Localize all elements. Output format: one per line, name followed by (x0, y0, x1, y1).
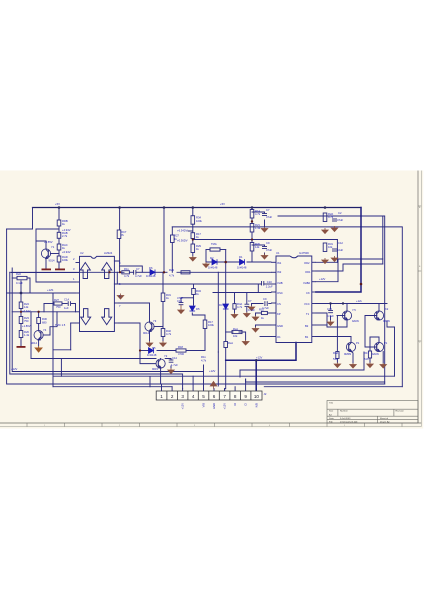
ground arrow C15 mid (178, 305, 184, 314)
svg-text:+0.94V: +0.94V (62, 250, 71, 254)
svg-text:+5V: +5V (220, 202, 225, 206)
U1 pins right (312, 261, 316, 263)
transistor Y3 (145, 322, 154, 331)
svg-text:51K: 51K (333, 357, 338, 361)
ground arrow cluster 1 (334, 363, 340, 368)
ground arrow Y3 e (146, 341, 152, 347)
wire +5V top rail (33, 207, 362, 209)
ground arrow Ra row (242, 340, 249, 345)
svg-text:Y4: Y4 (43, 328, 47, 332)
svg-text:1N4148: 1N4148 (146, 274, 156, 278)
svg-text:C2: C2 (338, 211, 342, 215)
wire right long feedback y226 (172, 227, 402, 387)
transistor Q3 right low a (346, 342, 355, 351)
svg-text:Revision: Revision (396, 411, 405, 413)
wire bottom long rows (53, 375, 395, 377)
resistor R32 (161, 329, 165, 337)
wire rail left drop (7, 208, 33, 230)
resistor R21 mid (250, 224, 254, 233)
wire R chain from rail (58, 208, 60, 221)
power arrow +12V above box6 (210, 382, 216, 389)
svg-text:GND: GND (277, 324, 283, 328)
svg-text:9M0N: 9M0N (344, 352, 351, 356)
ground arrow U2 side (117, 294, 123, 300)
svg-text:9A0N: 9A0N (383, 319, 390, 323)
node D5 row junction (139, 349, 141, 351)
wire box5 riser (203, 365, 205, 372)
svg-text:0.1uF: 0.1uF (16, 281, 23, 285)
svg-text:1N4148: 1N4148 (208, 266, 218, 270)
node diode row junction (224, 261, 227, 264)
svg-text:47uF: 47uF (337, 218, 343, 222)
ground arrow C9 pin5 (248, 306, 254, 311)
wire Y2 emitter (160, 368, 162, 384)
svg-text:Y2: Y2 (164, 354, 168, 358)
wire R31 branch (162, 272, 164, 293)
capacitor C7b under U1 (245, 303, 250, 305)
wire right cluster mesh (327, 326, 347, 328)
node thick +5V drop junction (360, 283, 363, 286)
svg-text:2.7k: 2.7k (62, 234, 68, 238)
resistor R26 (19, 331, 23, 338)
svg-text:9A0N: 9A0N (352, 319, 359, 323)
svg-text:R27: R27 (54, 298, 59, 302)
svg-text:1N4148: 1N4148 (147, 353, 157, 357)
svg-text:47uF: 47uF (266, 248, 272, 252)
wire Y4 base (43, 334, 50, 336)
svg-text:2.2uF: 2.2uF (266, 285, 273, 289)
svg-text:+12V: +12V (223, 403, 227, 410)
svg-text:C9: C9 (266, 241, 270, 245)
frame zone numbers (44, 206, 421, 427)
svg-text:+5V: +5V (55, 202, 60, 206)
wire mid comp risers under U1 (234, 293, 236, 304)
svg-text:Date:: Date: (329, 417, 335, 420)
resistor R17 1k col (191, 233, 195, 239)
transistor Q2 right top b (374, 311, 383, 320)
node VCC row junction A (329, 302, 331, 304)
diode D6 1N4148 (150, 270, 155, 276)
diode D4 vertical (223, 304, 229, 309)
sheet frame bottom border (0, 422, 421, 424)
resistor R29b 4.7k row (181, 271, 190, 274)
op-amp U2 arrow D down-right (102, 309, 112, 325)
svg-text:51K: 51K (364, 357, 369, 361)
svg-text:C12: C12 (338, 241, 343, 245)
wire left stack mid (20, 309, 22, 317)
svg-text:C7: C7 (248, 299, 252, 303)
wire +12V double rail b (12, 268, 203, 389)
svg-text:CS: CS (277, 302, 281, 306)
resistor R4A 51k (336, 352, 339, 359)
node op-amp row junction C (163, 271, 165, 273)
svg-text:+12V: +12V (256, 356, 263, 360)
svg-text:D5: D5 (152, 346, 156, 350)
svg-text:C1A: C1A (64, 298, 69, 302)
ground arrow cluster 2 (350, 363, 356, 368)
node R24 top junction (20, 292, 23, 295)
svg-text:Y.5: Y.5 (352, 308, 356, 312)
wire collector Y1 (45, 241, 47, 249)
U1 pins left (271, 261, 276, 263)
ground bar under chain (55, 269, 65, 271)
svg-text:OD1: OD1 (305, 270, 311, 274)
wire R27 column x172.3 (171, 227, 173, 235)
op-amp U2 arrow B up-right (102, 263, 112, 279)
svg-text:8: 8 (234, 394, 237, 399)
resistor R30 680 (37, 318, 41, 324)
wire feedback rect above row (120, 266, 143, 272)
svg-text:D5: D5 (196, 307, 200, 311)
op-amp U2 arrow C down-left (81, 309, 91, 325)
wire row drop to pin7 (114, 272, 117, 284)
svg-text:+12v: +12v (356, 299, 363, 303)
svg-text:1.4k: 1.4k (255, 226, 261, 230)
wire Y3 base (154, 326, 163, 328)
svg-text:0.1uF: 0.1uF (248, 308, 255, 312)
component value and designator labels (11, 202, 390, 396)
svg-text:+6.34V: +6.34V (22, 309, 31, 313)
svg-text:100k: 100k (208, 323, 214, 327)
resistor R34b 1k mid (192, 289, 196, 295)
svg-text:47uF: 47uF (266, 215, 272, 219)
node +5V rail junction A (58, 206, 61, 209)
wire VCC row right (316, 303, 387, 305)
node R20 chain junction (251, 238, 253, 240)
svg-text:C10: C10 (267, 280, 272, 284)
wire diode row y261 (206, 261, 239, 263)
svg-text:Y3: Y3 (153, 319, 157, 323)
svg-text:9014: 9014 (143, 331, 149, 335)
ground arrow pin7 (252, 327, 258, 332)
svg-text:+1.86V: +1.86V (22, 324, 31, 328)
svg-text:4700: 4700 (178, 352, 184, 356)
resistor Ra1b on riser (224, 342, 228, 348)
wire U2 pin3 to Y3 (119, 303, 150, 322)
wire Y3 emitter (149, 331, 151, 341)
svg-text:TMA: TMA (211, 242, 217, 246)
svg-text:R11: R11 (201, 355, 206, 359)
diode D5 horizontal (149, 348, 154, 354)
ground arrow R4a (231, 313, 237, 318)
title block (327, 401, 418, 424)
capacitor C small x17-27 comp (17, 276, 27, 279)
resistor TMA horizontal (210, 248, 220, 251)
U2 pins left (76, 262, 80, 264)
svg-text:+12V: +12V (209, 369, 216, 373)
wire rail drop x192.8 R34 (192, 208, 194, 216)
wire TMA legs (206, 249, 210, 251)
wire left tall loop (7, 229, 385, 384)
resistor RC7 x119 (117, 230, 121, 239)
svg-text:R17: R17 (364, 351, 369, 355)
wire rail drop x119 R (119, 208, 121, 231)
svg-text:+12V: +12V (181, 403, 185, 410)
node R24 bus junction (20, 311, 22, 313)
capacitor C9 (262, 246, 267, 248)
svg-text:C7: C7 (266, 208, 270, 212)
wire R34 bottom (188, 230, 192, 232)
svg-text:Sheet of: Sheet of (380, 417, 389, 420)
wire thick drop to box10 (255, 360, 257, 390)
svg-text:P1: P1 (356, 341, 360, 345)
svg-text:+6.55V: +6.55V (44, 240, 53, 244)
sheet background (0, 171, 423, 429)
svg-text:OSC: OSC (277, 291, 283, 295)
ground arrow R32 (160, 341, 166, 347)
svg-text:OD2: OD2 (304, 261, 310, 265)
ground arrow right pair1 (322, 228, 328, 234)
svg-text:Ra1: Ra1 (228, 341, 233, 345)
ground arrow cluster 3 (367, 363, 373, 368)
wire U2 pin8 stub (114, 260, 119, 262)
sheet frame right border (417, 171, 419, 424)
wire small comp legs (12, 277, 17, 279)
capacitor C1A on bus (67, 301, 69, 306)
resistor R23 (19, 317, 23, 324)
wire row drop long x218 (217, 272, 219, 352)
svg-text:14k: 14k (255, 245, 260, 249)
resistor R17 100k (203, 320, 207, 329)
svg-text:10uF: 10uF (337, 248, 343, 252)
wire Ra1 row (226, 331, 233, 333)
wire R11b vertical (217, 352, 219, 386)
transistor Y1 (41, 249, 50, 258)
wire left stack top (20, 281, 22, 302)
wire mid v x181 (181, 297, 194, 299)
capacitor C top chain right 1 (262, 213, 267, 215)
resistor R2A right pair 1 (323, 213, 327, 222)
svg-text:GND: GND (212, 403, 216, 409)
resistor R18 4700 (176, 349, 186, 352)
svg-text:0.1uF: 0.1uF (327, 314, 334, 318)
ground arrow C14 (168, 368, 174, 374)
resistor R24 (19, 302, 23, 309)
title block field labels (329, 401, 405, 423)
wire D5h R18 row (140, 350, 148, 352)
wire y370 row (240, 369, 364, 371)
svg-text:1.7uF: 1.7uF (171, 363, 178, 367)
svg-text:4.7uF: 4.7uF (262, 306, 269, 310)
svg-text:7: 7 (223, 394, 226, 399)
svg-text:47uF: 47uF (177, 296, 183, 300)
capacitor C right pair 1 (332, 218, 337, 220)
svg-text:Number: Number (340, 410, 348, 413)
op-amp U2 DIP body (80, 256, 115, 331)
svg-text:6: 6 (213, 394, 216, 399)
svg-text:U1: U1 (276, 251, 280, 255)
capacitor C4 under U1 pin (264, 301, 266, 306)
wire R17 v (204, 315, 206, 320)
svg-text:VIB: VIB (202, 403, 206, 408)
resistor R4a 4.7k vert (233, 304, 236, 310)
svg-text:4: 4 (192, 394, 195, 399)
resistor RAB chain 2 (57, 232, 61, 238)
op-amp U2 arrow A up-left (80, 263, 90, 279)
diode D1 1N4148 (240, 259, 245, 265)
svg-text:R22: R22 (16, 272, 21, 276)
svg-text:VHB2: VHB2 (303, 281, 311, 285)
svg-text:R11: R11 (124, 267, 129, 271)
svg-text:1.4k: 1.4k (24, 333, 30, 337)
ground bar under Y1 (42, 269, 52, 271)
svg-text:T1: T1 (306, 312, 310, 316)
ground arrow C15b right (327, 320, 333, 326)
svg-text:4.7k: 4.7k (237, 305, 243, 309)
svg-text:1uF: 1uF (64, 306, 69, 310)
svg-text:+6.34DV: +6.34DV (177, 229, 188, 233)
svg-text:IN2: IN2 (277, 270, 282, 274)
wire long y284 row (117, 283, 261, 285)
wire long y239.5 row (193, 239, 338, 241)
wire cap taps top right chain (252, 212, 265, 213)
svg-text:P1: P1 (384, 341, 388, 345)
transistor Y4 left low (34, 330, 43, 339)
svg-text:C9: C9 (263, 297, 267, 301)
svg-text:D1: D1 (239, 255, 243, 259)
wire base Y1 (51, 253, 60, 255)
svg-text:2: 2 (171, 394, 174, 399)
ground arrow Y4 (35, 346, 42, 352)
svg-text:R18: R18 (178, 345, 183, 349)
svg-text:14k: 14k (24, 305, 29, 309)
svg-text:+0.36DV: +0.36DV (177, 239, 188, 243)
svg-text:1: 1 (160, 394, 163, 399)
wire long riser x225.7 (225, 250, 227, 342)
resistor Ra1 (232, 330, 242, 333)
svg-text:IL4750K: IL4750K (299, 251, 309, 255)
svg-text:CK: CK (306, 291, 310, 295)
svg-text:R30: R30 (42, 317, 47, 321)
capacitor C15 mid (179, 302, 184, 304)
svg-text:750: 750 (24, 319, 29, 323)
resistor R27 1k col (171, 235, 175, 243)
svg-text:3: 3 (181, 394, 184, 399)
capacitor C7 4.7uF row (133, 270, 135, 275)
wire connector stubs (161, 384, 163, 391)
svg-text:C14: C14 (172, 356, 177, 360)
svg-text:File:: File: (329, 421, 334, 423)
resistor RDB top chain 1 (57, 220, 61, 226)
svg-text:Y1: Y1 (51, 245, 55, 249)
wire rail drop x252 chain (251, 208, 253, 210)
svg-text:U2: U2 (80, 251, 84, 255)
wire U2 pin low to D5 row (119, 323, 141, 351)
wire U1 left pin wires (213, 292, 271, 294)
svg-text:9A0N: 9A0N (372, 352, 379, 356)
svg-text:B1: B1 (305, 335, 309, 339)
wire rail drop x165 (163, 208, 165, 273)
node R14 chain junction (251, 220, 253, 222)
resistor R34 100k (191, 216, 195, 225)
ground arrow cluster 4 (380, 363, 386, 368)
IC U1 DIP body (276, 256, 312, 343)
svg-text:1N4148: 1N4148 (237, 266, 247, 270)
svg-text:680: 680 (42, 320, 47, 324)
svg-text:CI: CI (244, 403, 248, 406)
wire thick +5V L to U1 (316, 208, 361, 293)
transistor Q4 right low b (374, 342, 383, 351)
svg-text:O1: O1 (277, 335, 281, 339)
svg-text:4.7k: 4.7k (255, 212, 261, 216)
connector J2 net labels (181, 403, 259, 410)
resistor RAC chain 3 (57, 244, 61, 250)
wire C14 legs (170, 366, 172, 368)
wire emitter Y1 (45, 258, 47, 269)
svg-text:Ra1: Ra1 (233, 327, 238, 331)
capacitor C14 (169, 359, 174, 361)
resistor R31 right pair 2 (323, 243, 327, 252)
capacitor C15b right (328, 310, 333, 312)
ground arrow under 264 cap top (261, 227, 267, 232)
diode D5v vertical (190, 306, 196, 311)
sheet border frame with zone ticks (0, 171, 421, 427)
wire feedback box left (36, 241, 76, 282)
U2 pins right (114, 260, 119, 262)
node VCC row junction B (342, 302, 344, 304)
svg-text:100k: 100k (196, 219, 202, 223)
node +12V thick row junction (255, 359, 258, 362)
svg-text:D6: D6 (149, 266, 153, 270)
svg-text:5-Jul-2003: 5-Jul-2003 (340, 418, 351, 420)
connector J2 pin numbers 1-10 (160, 394, 259, 399)
svg-text:TMC 1.5: TMC 1.5 (55, 323, 66, 327)
wire chain to gnd (58, 226, 60, 232)
svg-text:D2: D2 (210, 256, 214, 260)
svg-text:4.7k: 4.7k (124, 274, 130, 278)
wire mid risers to rows (30, 312, 32, 359)
svg-text:Drawn By:: Drawn By: (380, 420, 390, 423)
wire D5v branch (193, 284, 195, 289)
svg-text:10: 10 (254, 394, 260, 399)
svg-text:KP: KP (277, 312, 281, 316)
svg-text:4.7k: 4.7k (166, 332, 172, 336)
wire +12S row (7, 292, 76, 294)
ground bar left stack (17, 346, 26, 348)
wire U2 output row (10, 271, 124, 273)
wire mid bus +6.34V (12, 311, 75, 313)
resistor R29 1k (191, 244, 195, 253)
svg-text:9014: 9014 (31, 341, 37, 345)
svg-text:K2: K2 (385, 307, 389, 311)
svg-text:R4A: R4A (333, 351, 338, 355)
svg-text:VCC: VCC (304, 302, 310, 306)
wire U1 right pins (316, 261, 338, 263)
ground arrow TMA (203, 262, 209, 268)
svg-text:9014: 9014 (49, 259, 55, 263)
wire row to Y2 base (140, 351, 156, 364)
wire thick +12V under U1 (226, 343, 296, 361)
resistor R27 750 on bus (54, 302, 62, 305)
svg-text:5: 5 (202, 394, 205, 399)
svg-text:+12V: +12V (11, 367, 18, 371)
wire Y2 collector (160, 358, 162, 360)
svg-text:4.7uF: 4.7uF (135, 274, 142, 278)
ground arrow under 264 cap low (261, 254, 267, 260)
svg-text:D4: D4 (219, 303, 223, 307)
resistor R10 1k (261, 311, 267, 314)
svg-text:9: 9 (244, 394, 247, 399)
node +5V rail junction F (324, 206, 327, 209)
resistor R11 4.7k row (122, 271, 130, 274)
resistor R14 top (250, 210, 254, 219)
resistor R31 1k (161, 293, 165, 302)
svg-text:K/B: K/B (254, 403, 258, 408)
wire y272 row to U2 (12, 272, 76, 274)
svg-text:+12V: +12V (319, 277, 326, 281)
ground arrow R29 (190, 256, 196, 261)
svg-text:B2: B2 (305, 324, 309, 328)
